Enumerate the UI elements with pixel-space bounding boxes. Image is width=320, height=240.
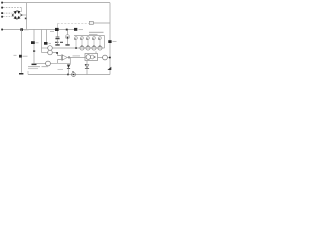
component B1 on x21.5 [19, 55, 22, 58]
wire branch to R2 [42, 52, 48, 54]
wire vertical x46.5 [46, 30, 48, 43]
wire right rail V2 [109, 3, 111, 75]
wire branch to R1 [42, 47, 48, 49]
wire rail y29.5 [3, 29, 77, 31]
node junction J1 [20, 28, 23, 31]
nub at left end of YC [27, 71, 29, 75]
wire YA end down x104.5 [104, 36, 106, 49]
component B2 [31, 41, 35, 44]
diode D1 down-pointing [69, 63, 71, 64]
wire V1 vertical [26, 3, 28, 30]
label left tick of B1 [14, 54, 17, 56]
label text above YA row2 [89, 33, 98, 35]
tick on x34 [33, 50, 35, 52]
node junction at V2 [109, 57, 111, 59]
wire bridge right to V1 [22, 14, 27, 16]
label right of J1 [24, 29, 29, 31]
label right of B1 [23, 55, 28, 57]
circle on bottom rail [72, 73, 76, 77]
node terminal T3 [1, 12, 3, 14]
label text above YA row1 [89, 31, 104, 33]
wire box to R4 [98, 57, 103, 59]
node terminal T1 [1, 2, 3, 4]
wire mid rail y23.5 dashed left part [58, 23, 90, 25]
relay box K1 [85, 54, 98, 61]
label text row above bottom rail [28, 66, 48, 68]
lower circle row stage5 [98, 46, 102, 50]
component B4 on rail [55, 28, 59, 31]
relay coil circle 2 [90, 55, 94, 59]
meter circle R4 [103, 55, 108, 60]
stage 5 circle [99, 37, 102, 40]
tick above box [95, 51, 97, 53]
wire R3 right [50, 62, 70, 64]
stage 2 circle [81, 37, 84, 40]
node junction drop-rail [67, 74, 69, 76]
ground G4 [65, 44, 69, 45]
stage 3 circle [87, 37, 90, 40]
node terminal T2 [1, 7, 3, 9]
meter circle R2 [48, 50, 53, 55]
wire left vertical x21.5 [21, 30, 23, 73]
node junction stage1-YB [75, 47, 77, 49]
bridge rectifier BR1 [12, 11, 22, 20]
label dash pair under C1 [55, 41, 63, 43]
wire vertical x41.5 [41, 30, 43, 53]
wire vertical x34 upper [33, 30, 35, 42]
wire opamp in2 drop [58, 60, 63, 64]
ground G3 [55, 44, 59, 45]
tick above circle [72, 71, 74, 72]
ground G1 [19, 73, 23, 75]
stage 1 circle [75, 37, 78, 40]
component B7 on V2 [108, 40, 111, 43]
fuse F1 on y23 line [89, 21, 93, 24]
wire dashed L4 [3, 15, 13, 16]
node terminal T4 [1, 16, 3, 18]
label above rail near diode [58, 69, 64, 71]
capacitor C1 on x57.5 [56, 36, 60, 38]
wire D1 to rail [67, 69, 69, 75]
bottom rail YC [28, 74, 110, 76]
wire y23 right part [94, 22, 111, 24]
label right of B3 [49, 42, 52, 44]
diode D2 down-pointing on x87 [86, 61, 88, 65]
wire long rail YB [52, 47, 104, 49]
ground G2 bar [32, 64, 37, 66]
diode D3 on x67.5 vertical [67, 31, 69, 35]
rail YA y35.5 [74, 35, 105, 37]
label right of B5 [79, 29, 84, 31]
wire drop from y23 to B4 [57, 24, 59, 29]
label right of B7 [113, 40, 117, 42]
lower circle row stage2 [80, 46, 84, 50]
stage 4 circle [93, 37, 96, 40]
wire L2 drop to bridge [21, 8, 23, 12]
meter circle R1 [48, 46, 53, 51]
component B3 [44, 42, 48, 45]
wire feedback x70.3 [69, 58, 71, 64]
node tick at R2 corner [56, 52, 58, 54]
lower circle row stage4 [92, 46, 96, 50]
wire dashed L2 [3, 7, 22, 9]
wire top rail [3, 2, 110, 4]
wire R2 to opamp [52, 53, 61, 56]
wire circle R3 line [34, 63, 46, 65]
background [0, 0, 120, 79]
lower circle row stage3 [86, 46, 90, 50]
label above out wire [73, 55, 81, 57]
relay coil circle [86, 55, 91, 60]
wire dashed L3 [3, 12, 13, 14]
node tick at op-amp output [68, 57, 70, 59]
wire R4 to V2 [107, 57, 110, 59]
node junction J2 [66, 29, 68, 31]
mark inside box right [94, 56, 96, 58]
op-amp U1 [62, 55, 67, 60]
label under B4 [50, 30, 54, 32]
node terminal T5 [1, 29, 3, 31]
node junction near V1 [25, 18, 27, 20]
label right of B2 [36, 42, 39, 44]
wire vertical x34 lower [33, 44, 35, 64]
meter circle R3 [46, 61, 51, 66]
component B5 on rail [74, 28, 77, 31]
label text row 2 [28, 68, 38, 70]
wire opamp out [67, 57, 85, 59]
mark on V2 lower [107, 67, 111, 70]
